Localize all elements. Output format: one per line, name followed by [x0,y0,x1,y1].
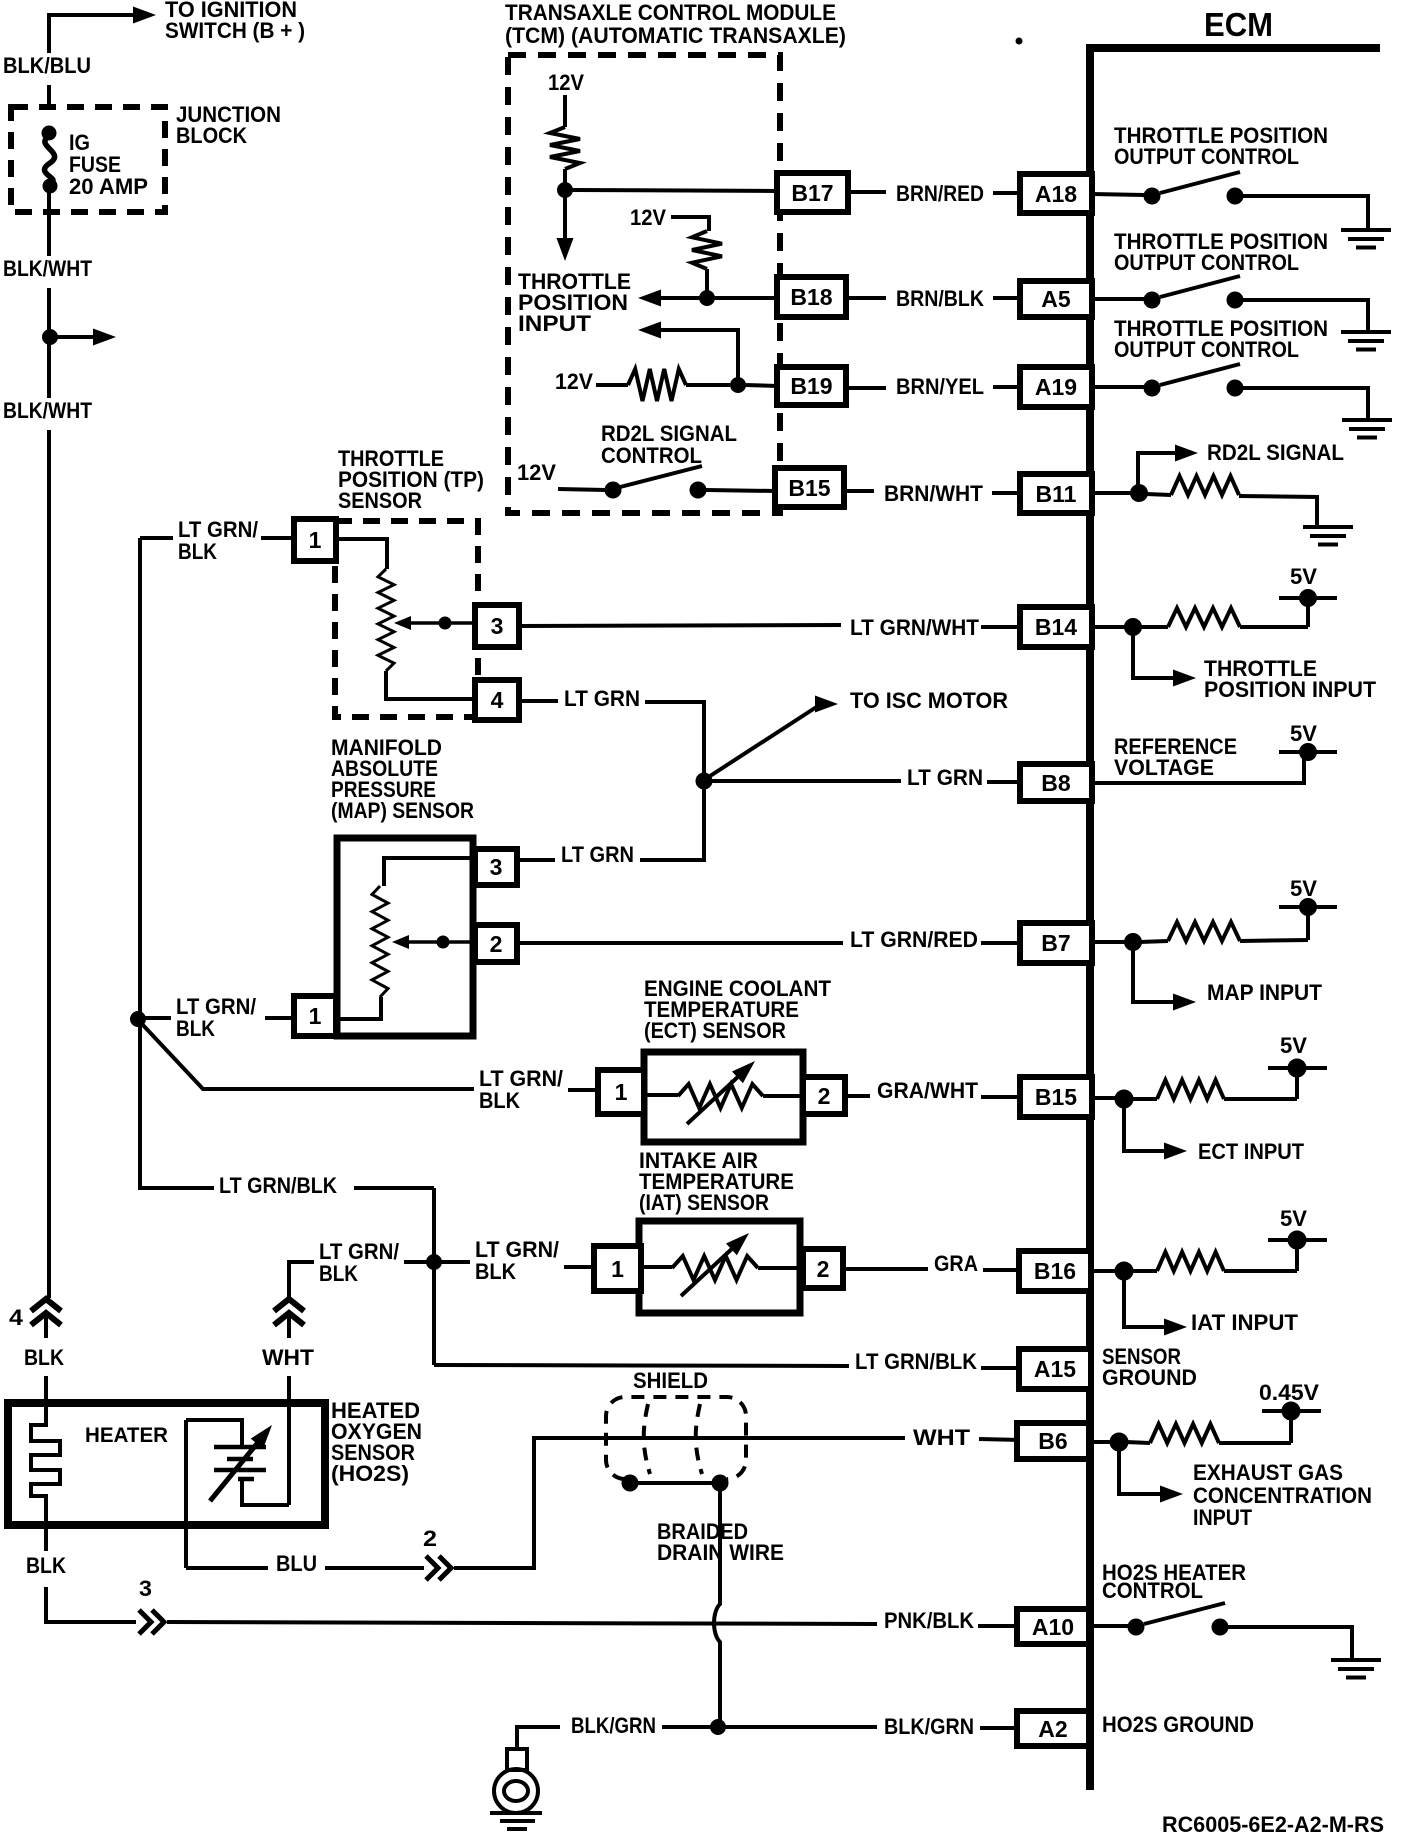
wire BLK/WHT from fuse down [47,193,51,256]
svg-text:A10: A10 [1032,1614,1074,1640]
MAP wiper arrow [406,940,477,944]
junction dot LT GRN [696,773,712,789]
shield dashed outline [606,1397,746,1479]
svg-text:BLK: BLK [479,1088,520,1113]
svg-text:LT GRN: LT GRN [564,686,640,711]
svg-text:B6: B6 [1038,1428,1067,1454]
HO2S heater element [31,1403,60,1525]
svg-text:OUTPUT CONTROL: OUTPUT CONTROL [1114,337,1299,362]
arrow IAT input [1124,1279,1165,1327]
svg-text:(HO2S): (HO2S) [331,1461,409,1486]
svg-text:(TCM) (AUTOMATIC TRANSAXLE): (TCM) (AUTOMATIC TRANSAXLE) [505,23,846,48]
svg-text:12V: 12V [555,369,593,394]
svg-text:BLK/WHT: BLK/WHT [3,256,92,281]
svg-text:B15: B15 [788,475,830,501]
chevron connector WHT [274,1299,304,1311]
svg-text:TO ISC MOTOR: TO ISC MOTOR [850,688,1008,713]
connector pin B6 (ECM) [1017,1423,1089,1459]
svg-text:BLK/BLU: BLK/BLU [3,53,91,78]
svg-text:BRN/YEL: BRN/YEL [896,374,984,399]
svg-text:4: 4 [491,687,504,713]
resistor TCM R2 [692,231,722,269]
svg-text:VOLTAGE: VOLTAGE [1114,755,1214,780]
svg-text:BLK/GRN: BLK/GRN [571,1713,656,1738]
IAT sensor box [639,1221,800,1313]
svg-text:BRN/BLK: BRN/BLK [896,286,984,311]
pin 2 IAT [803,1249,843,1288]
pin 4 TP [475,680,519,720]
svg-text:B15: B15 [1035,1084,1077,1110]
TCM dashed box [508,55,780,513]
connector pin A18 (ECM) [1020,174,1092,213]
shield wire through [600,1436,905,1440]
wire WHT chevron to sensor-ground junction [289,1262,314,1298]
svg-text:SHIELD: SHIELD [633,1368,708,1393]
svg-text:WHT: WHT [262,1345,315,1370]
resistor TCM R1 [550,127,580,169]
arrow MAP input [1133,949,1174,1002]
svg-text:A15: A15 [1034,1356,1076,1382]
switch A10 [1089,1624,1129,1628]
wire to ignition switch [49,15,134,53]
wire GRA/WHT ECT-B15 [845,1094,870,1098]
svg-text:EXHAUST GAS: EXHAUST GAS [1193,1460,1343,1485]
svg-text:5V: 5V [1290,876,1317,901]
ground eyelet [517,1727,560,1749]
pin 1 MAP [294,996,336,1036]
ECT sensor box [644,1052,803,1142]
connector pin B14 (ECM) [1020,607,1092,647]
resistor B14 [1168,608,1240,627]
switch A19 [1092,385,1146,389]
svg-text:A19: A19 [1035,374,1077,400]
svg-text:2: 2 [490,931,503,957]
wire GRA IAT-B16 [843,1267,928,1271]
svg-text:5V: 5V [1290,721,1317,746]
node TCM R3/B19 junction [731,378,746,393]
ground A5 [1341,330,1391,334]
arrow 2 left from B19 net [638,322,661,339]
connector pin B15 (ECM) [1020,1077,1092,1117]
svg-text:WHT: WHT [913,1425,971,1450]
svg-text:CONTROL: CONTROL [1102,1578,1203,1603]
arrow TO ISC MOTOR [707,706,818,778]
svg-text:5V: 5V [1290,564,1317,589]
TP wiper arrow [408,621,477,625]
svg-text:A5: A5 [1041,286,1071,312]
svg-text:BLOCK: BLOCK [176,123,247,148]
junction dot IAT branch [427,1255,442,1270]
wire LT GRN to B8 [711,779,901,783]
svg-text:B7: B7 [1041,930,1070,956]
pin 3 TP [475,605,519,647]
ECM bus line [1086,44,1094,1790]
svg-text:HEATER: HEATER [85,1424,168,1447]
svg-text:A2: A2 [1038,1716,1067,1742]
BLU wire from sensing element [184,1420,188,1568]
node TCM R1/B17 junction [558,183,573,198]
connector pin B17 [777,173,848,212]
wire LT GRN/BLK to TP pin 1 [140,536,173,540]
svg-text:GROUND: GROUND [1102,1365,1197,1390]
svg-text:B17: B17 [791,180,833,206]
TP sensor dashed box [335,521,478,717]
svg-text:LT GRN/BLK: LT GRN/BLK [855,1349,977,1374]
connector pin A2 (ECM) [1017,1711,1089,1746]
wire BLK from heater [44,1525,48,1551]
svg-text:BLK: BLK [24,1345,64,1370]
RD2L signal output B11 [1092,491,1131,495]
svg-text:SENSOR: SENSOR [338,488,422,513]
wire BLK/WHT continues [47,344,51,398]
connector pin A19 (ECM) [1020,367,1092,407]
resistor TCM R3 [628,369,686,401]
connector pin B16 (ECM) [1019,1251,1091,1291]
svg-text:ECM: ECM [1204,6,1273,43]
connector pin A15 (ECM) [1019,1349,1091,1389]
wire BLU with chevron 2 [186,1566,268,1570]
svg-text:B11: B11 [1036,481,1077,507]
svg-text:5V: 5V [1280,1033,1307,1058]
IAT thermistor [641,1265,672,1269]
svg-text:A18: A18 [1035,181,1077,207]
svg-text:ECT INPUT: ECT INPUT [1198,1139,1305,1164]
svg-text:GRA/WHT: GRA/WHT [877,1078,979,1103]
wire to B17 [572,190,778,191]
svg-text:BLK/GRN: BLK/GRN [884,1714,974,1739]
svg-text:(IAT) SENSOR: (IAT) SENSOR [639,1190,769,1215]
connector pin B18 [777,277,846,317]
switch A5 [1092,297,1146,301]
svg-text:1: 1 [309,1003,322,1029]
wire BRN/RED B17-A18 [848,190,886,194]
junction dot drain/BLK GRN [711,1720,726,1735]
connector pin B7 (ECM) [1020,923,1092,963]
svg-text:OUTPUT CONTROL: OUTPUT CONTROL [1114,144,1299,169]
MAP sensor box [337,838,473,1036]
ground B11 [1303,525,1353,529]
svg-text:BLK: BLK [475,1259,516,1284]
svg-text:4: 4 [9,1305,24,1330]
resistor B6 [1150,1424,1219,1443]
svg-text:BLK: BLK [26,1553,66,1578]
svg-text:20 AMP: 20 AMP [69,174,148,199]
svg-text:2: 2 [818,1083,831,1109]
wire BRN/YEL B19-A19 [846,386,886,390]
arrow left to throttle position input [660,296,700,300]
connector pin B19 [777,367,846,405]
resistor B7 [1168,922,1240,941]
svg-text:B14: B14 [1035,614,1077,640]
arrow to throttle position input [563,197,567,240]
wire LT GRN from TP pin 4 [519,699,558,703]
svg-text:LT GRN: LT GRN [561,842,634,867]
svg-text:12V: 12V [517,460,556,485]
svg-text:0.45V: 0.45V [1259,1380,1319,1405]
svg-text:1: 1 [309,527,322,553]
junction dot LT GRN/BLK [131,1012,146,1027]
svg-text:1: 1 [615,1079,628,1105]
arrow throttle position input [1133,634,1174,678]
wire LT GRN/RED MAP pin2-B7 [517,941,843,945]
ground A10 [1331,1658,1381,1662]
wire LT GRN/BLK vertical [138,538,142,1190]
shield ground dots [622,1475,638,1491]
svg-text:BLK: BLK [319,1261,358,1286]
svg-text:CONTROL: CONTROL [601,443,702,468]
pin 3 MAP [475,849,517,885]
svg-text:LT GRN/BLK: LT GRN/BLK [219,1173,337,1198]
wire LT GRN/BLK to A15 [434,1365,849,1366]
svg-text:GRA: GRA [934,1251,978,1276]
resistor TP potentiometer [378,569,394,671]
svg-text:RD2L SIGNAL: RD2L SIGNAL [1207,440,1344,465]
svg-text:(ECT) SENSOR: (ECT) SENSOR [644,1018,786,1043]
svg-text:BLU: BLU [276,1551,317,1576]
junction dot with branch arrow [43,330,58,345]
ground A18 [1341,228,1391,232]
svg-text:MAP INPUT: MAP INPUT [1207,980,1323,1005]
svg-text:5V: 5V [1280,1206,1307,1231]
arrow ECT input [1124,1107,1165,1151]
ECT thermistor [644,1093,678,1097]
svg-text:LT GRN/WHT: LT GRN/WHT [850,615,980,640]
svg-text:(MAP) SENSOR: (MAP) SENSOR [331,798,474,823]
HO2S outer box [8,1403,325,1525]
HO2S sensing element [186,1420,242,1447]
fuse IG FUSE 20 AMP [42,126,56,140]
svg-text:BLK: BLK [178,539,217,564]
svg-text:BLK: BLK [176,1016,215,1041]
TP internal resistor wire [337,539,387,569]
svg-text:LT GRN/RED: LT GRN/RED [850,927,978,952]
wire LT GRN/BLK lower branch [140,1186,214,1190]
svg-text:HO2S GROUND: HO2S GROUND [1102,1712,1254,1737]
svg-text:IAT INPUT: IAT INPUT [1191,1310,1299,1335]
svg-text:RC6005-6E2-A2-M-RS: RC6005-6E2-A2-M-RS [1162,1812,1384,1834]
svg-text:BRN/WHT: BRN/WHT [884,481,984,506]
svg-text:3: 3 [490,854,503,880]
wire PNK/BLK to A10 [167,1622,877,1624]
resistor B11 [1146,494,1171,495]
stray dot [1016,38,1022,44]
wire BRN/BLK B18-A5 [846,296,886,300]
connector pin A10 (ECM) [1017,1609,1089,1644]
svg-text:INPUT: INPUT [1193,1505,1253,1530]
svg-text:INPUT: INPUT [518,311,592,336]
svg-text:OUTPUT CONTROL: OUTPUT CONTROL [1114,250,1299,275]
connector pin B15 (TCM) [775,468,844,507]
switch RD2L signal control [605,482,621,498]
connector pin A5 (ECM) [1020,281,1092,317]
resistor B16 [1157,1252,1224,1271]
pin 2 MAP [475,925,517,962]
svg-text:LT GRN: LT GRN [907,765,983,790]
svg-text:SWITCH (B + ): SWITCH (B + ) [165,18,305,43]
svg-text:BRN/RED: BRN/RED [896,181,984,206]
switch A18 [1092,194,1146,195]
pin 2 ECT [803,1077,845,1114]
svg-text:12V: 12V [630,205,666,230]
pin 1 ECT [598,1070,644,1114]
ground A19 [1342,418,1392,422]
connector pin B8 (ECM) [1020,764,1092,801]
svg-text:B16: B16 [1034,1258,1076,1284]
arrow exhaust gas concentration input [1119,1450,1161,1494]
svg-text:1: 1 [611,1256,624,1282]
resistor B15 [1157,1080,1224,1099]
wire LT GRN to MAP pin 3 [640,784,704,860]
svg-text:2: 2 [817,1256,830,1282]
pin 1 TP [294,519,336,561]
wire LT GRN/WHT TP pin3 - B14 [519,625,841,626]
svg-text:PNK/BLK: PNK/BLK [884,1608,974,1633]
svg-text:B19: B19 [790,373,832,399]
wire to MAP pin 1 [145,1016,171,1020]
pin 1 IAT [594,1246,641,1291]
svg-text:3: 3 [491,613,504,639]
svg-text:BLK/WHT: BLK/WHT [3,398,92,423]
svg-text:TRANSAXLE CONTROL MODULE: TRANSAXLE CONTROL MODULE [505,0,836,25]
wire BRN/WHT B15-B11 [844,489,874,493]
svg-text:B8: B8 [1041,770,1071,796]
diagonal wire to ECT pin 1 [141,1023,474,1089]
svg-text:POSITION INPUT: POSITION INPUT [1204,677,1377,702]
connector pin B11 (ECM) [1020,474,1092,513]
MAP internal resistor [384,858,472,886]
svg-text:12V: 12V [548,70,584,95]
svg-text:3: 3 [139,1576,152,1601]
node TCM R2/B18 junction [700,291,715,306]
svg-text:B18: B18 [790,284,832,310]
junction block dashed box [11,107,165,212]
svg-text:2: 2 [423,1526,437,1551]
